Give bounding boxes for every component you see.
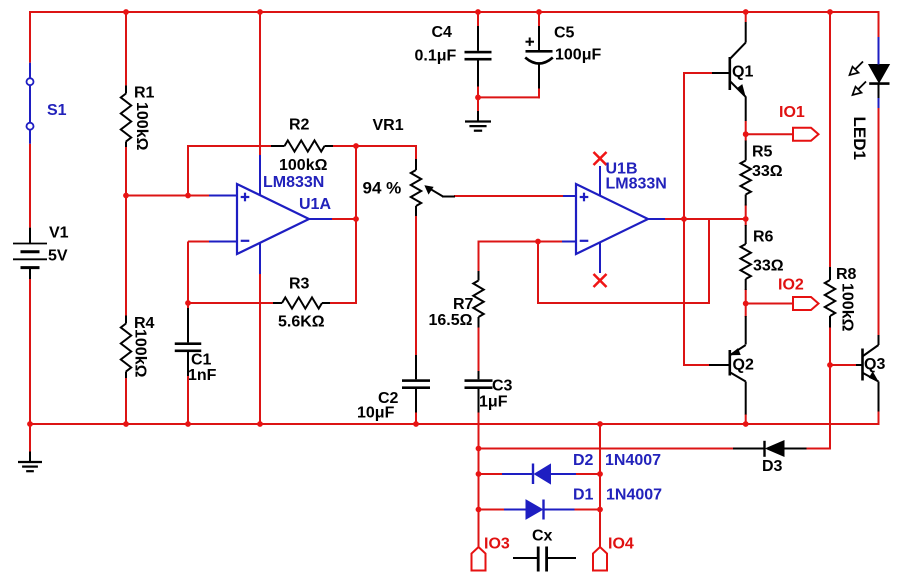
svg-text:1μF: 1μF bbox=[479, 394, 508, 411]
svg-text:V1: V1 bbox=[49, 225, 69, 242]
svg-text:D1: D1 bbox=[573, 487, 594, 504]
svg-text:C4: C4 bbox=[432, 24, 453, 41]
svg-text:IO2: IO2 bbox=[778, 277, 804, 294]
svg-text:IO4: IO4 bbox=[608, 536, 634, 553]
svg-text:100kΩ: 100kΩ bbox=[279, 157, 328, 174]
svg-text:Q1: Q1 bbox=[732, 64, 753, 81]
svg-text:LM833N: LM833N bbox=[263, 174, 324, 191]
svg-text:LM833N: LM833N bbox=[606, 176, 667, 193]
svg-text:C3: C3 bbox=[492, 378, 513, 395]
svg-text:100kΩ: 100kΩ bbox=[133, 102, 150, 151]
svg-text:1nF: 1nF bbox=[188, 367, 217, 384]
svg-text:0.1μF: 0.1μF bbox=[415, 48, 457, 65]
svg-text:Q2: Q2 bbox=[733, 357, 754, 374]
svg-text:VR1: VR1 bbox=[373, 117, 404, 134]
svg-text:100μF: 100μF bbox=[555, 47, 601, 64]
svg-text:Q3: Q3 bbox=[864, 356, 885, 373]
svg-text:94 %: 94 % bbox=[363, 179, 402, 198]
svg-text:LED1: LED1 bbox=[850, 117, 869, 160]
svg-text:33Ω: 33Ω bbox=[752, 163, 783, 180]
svg-text:16.5Ω: 16.5Ω bbox=[429, 312, 473, 329]
svg-text:R8: R8 bbox=[836, 266, 857, 283]
svg-text:D3: D3 bbox=[762, 458, 783, 475]
svg-text:1N4007: 1N4007 bbox=[606, 487, 662, 504]
svg-text:IO1: IO1 bbox=[779, 104, 805, 121]
svg-text:33Ω: 33Ω bbox=[753, 258, 784, 275]
svg-text:Cx: Cx bbox=[532, 528, 553, 545]
svg-text:1N4007: 1N4007 bbox=[605, 452, 661, 469]
svg-text:C1: C1 bbox=[191, 352, 212, 369]
svg-text:5V: 5V bbox=[48, 247, 68, 264]
svg-text:R6: R6 bbox=[753, 229, 774, 246]
svg-text:U1A: U1A bbox=[299, 196, 331, 213]
svg-text:100kΩ: 100kΩ bbox=[839, 283, 856, 332]
svg-text:R1: R1 bbox=[134, 85, 155, 102]
svg-text:10μF: 10μF bbox=[357, 405, 395, 422]
svg-text:C5: C5 bbox=[554, 25, 575, 42]
svg-text:S1: S1 bbox=[47, 102, 67, 119]
svg-text:R3: R3 bbox=[289, 276, 310, 293]
svg-text:IO3: IO3 bbox=[484, 536, 510, 553]
svg-text:R7: R7 bbox=[453, 296, 474, 313]
svg-text:100kΩ: 100kΩ bbox=[132, 329, 149, 378]
svg-text:R2: R2 bbox=[289, 117, 310, 134]
svg-text:5.6KΩ: 5.6KΩ bbox=[278, 314, 325, 331]
svg-text:D2: D2 bbox=[573, 452, 594, 469]
svg-text:R5: R5 bbox=[752, 144, 773, 161]
